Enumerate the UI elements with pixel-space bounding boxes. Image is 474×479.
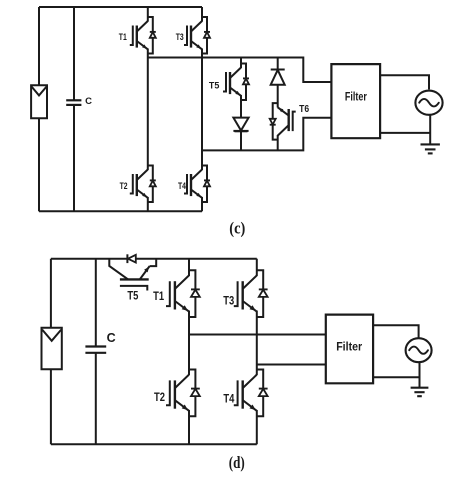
wire: leg1 to bottom bus (d) (188, 410, 190, 444)
wire: filter output bottom (d) (373, 376, 419, 378)
wire: leg2 middle (c) (201, 49, 203, 171)
diode D6 series with T6 (c) (271, 69, 285, 71)
wire: leg1 from top bus (d) (188, 259, 190, 276)
wire: leg1 middle (c) (147, 49, 149, 171)
wire: leg2 to bottom bus (d) (256, 410, 258, 444)
svg-text:(c): (c) (229, 219, 245, 238)
svg-text:Filter: Filter (345, 92, 367, 104)
svg-text:(d): (d) (229, 453, 245, 472)
transistor T3 (IGBT with antiparallel diode) (234, 270, 268, 317)
svg-text:T4: T4 (178, 181, 186, 191)
wire: leg1 middle (d) (188, 311, 190, 376)
transistor T2 (IGBT with antiparallel diode) (130, 166, 156, 203)
transistor T3 (IGBT with antiparallel diode) (184, 17, 210, 54)
wire: leg2 output to filter (d) (257, 364, 326, 366)
wire: leg1 to bottom bus (c) (147, 197, 149, 211)
transistor T2 (IGBT with antiparallel diode) (166, 370, 200, 417)
svg-text:T6: T6 (299, 104, 309, 115)
transistor T5 (IGBT with antiparallel diode) (223, 64, 249, 101)
svg-text:T4: T4 (223, 394, 234, 406)
wire: top DC bus left part (d) (51, 258, 128, 260)
diode D5 series with T5 (c) (233, 130, 248, 132)
freewheeling diode on DC bus (d) (127, 254, 135, 263)
wire: middle section bottom bus to filter bottom (c) (202, 118, 331, 151)
wire: T5 branch top (c) (240, 58, 242, 69)
wire: leg2 from top bus (c) (201, 7, 203, 22)
wire: capacitor branch lower (c) (73, 105, 75, 211)
wire: left rail lower (d) (50, 369, 52, 444)
svg-text:T1: T1 (119, 32, 127, 42)
transistor T4 (IGBT with antiparallel diode) (234, 370, 268, 417)
wire: T5 to series diode (c) (240, 95, 242, 118)
svg-text:Filter: Filter (336, 341, 362, 353)
svg-text:T3: T3 (176, 32, 184, 42)
transistor T6 (IGBT with antiparallel diode) (270, 103, 296, 140)
wire: leg2 from top bus (d) (256, 259, 258, 276)
wire: capacitor branch upper (d) (95, 259, 97, 347)
transistor T1 (IGBT with antiparallel diode) (130, 17, 156, 54)
svg-text:T1: T1 (153, 291, 164, 303)
AC grid source (c) (415, 91, 442, 115)
wire: T6 to bottom middle bus (c) (277, 135, 279, 150)
svg-text:T2: T2 (120, 181, 128, 191)
svg-text:C: C (85, 96, 92, 107)
wire: filter output bottom (c) (380, 132, 430, 134)
transistor T5 (d) horizontal IGBT bypass (109, 259, 156, 291)
svg-text:T3: T3 (223, 296, 234, 308)
wire: diode to T6 (c) (277, 85, 279, 108)
wire: bridge output line to filter top (c) (148, 58, 332, 83)
capacitor C (c) (66, 100, 81, 105)
transistor T1 (IGBT with antiparallel diode) (166, 270, 200, 317)
capacitor C (d) (85, 347, 106, 353)
PV source panel (c) (31, 85, 47, 118)
wire: AC source to ground (d) (419, 362, 421, 388)
wire: T6 branch top (c) (277, 58, 279, 70)
svg-text:T5: T5 (127, 290, 138, 302)
ground (d) (411, 388, 429, 397)
AC grid source (d) (406, 338, 432, 362)
wire: capacitor branch upper (c) (73, 7, 75, 100)
wire: capacitor branch lower (d) (95, 353, 97, 445)
wire: series diode to bottom middle bus (c) (240, 131, 242, 150)
svg-text:T5: T5 (209, 80, 220, 91)
svg-text:T2: T2 (154, 392, 165, 404)
wire: leg1 from top bus (c) (147, 7, 149, 22)
ground (c) (421, 144, 440, 153)
wire: left rail lower (c) (38, 118, 40, 211)
wire: leg1 output to filter (d) (189, 334, 326, 336)
wire: leg2 middle (d) (256, 311, 258, 376)
wire: AC source to ground (c) (429, 115, 431, 145)
PV source panel (d) (42, 328, 62, 370)
filter block (d) (326, 315, 373, 384)
svg-text:C: C (107, 331, 116, 345)
wire: filter output top to AC source (d) (373, 325, 419, 338)
wire: top DC bus (c) (39, 6, 202, 8)
wire: leg2 to bottom bus (c) (201, 197, 203, 211)
wire: top DC bus right part (d) (136, 258, 257, 260)
wire: filter output top to AC source (c) (380, 75, 429, 89)
filter block (c) (331, 64, 380, 138)
transistor T4 (IGBT with antiparallel diode) (184, 166, 210, 203)
wire: bottom DC bus (d) (51, 443, 257, 445)
wire: bottom DC bus (c) (39, 210, 202, 212)
wire: left rail upper (c) (38, 7, 40, 85)
wire: left rail upper (d) (50, 259, 52, 328)
